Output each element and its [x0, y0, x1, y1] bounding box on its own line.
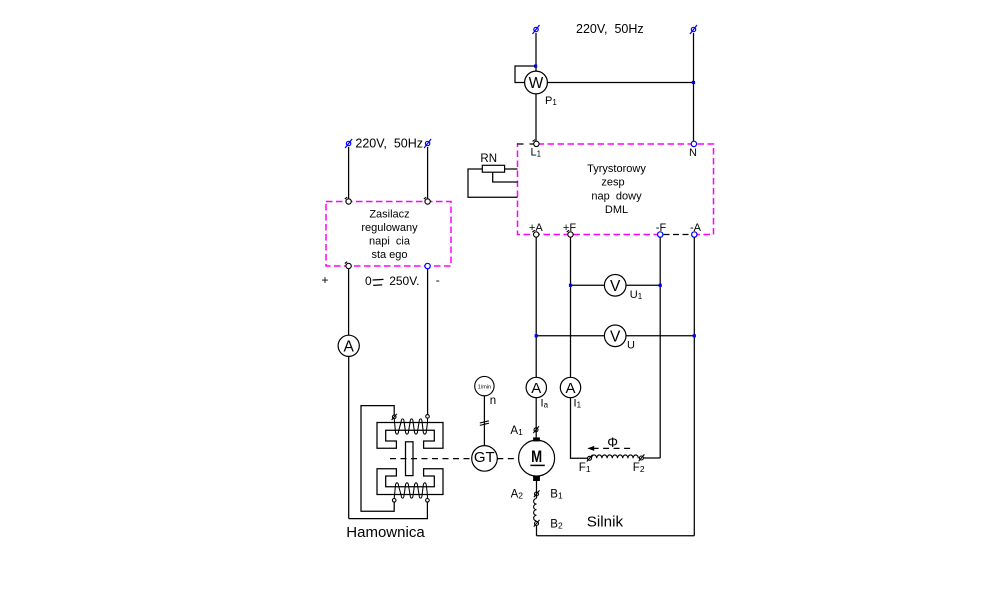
- terminal -F: [658, 232, 663, 237]
- terminal +A: [532, 230, 539, 237]
- brake coil bottom: [394, 483, 427, 499]
- svg-text:+A: +A: [529, 222, 543, 234]
- svg-text:M: M: [531, 448, 542, 466]
- node U1 left: [569, 284, 572, 287]
- svg-text:A: A: [565, 380, 575, 397]
- terminal N: [691, 141, 696, 146]
- svg-text:F1: F1: [579, 462, 591, 474]
- wire I1 down to F1: [571, 398, 588, 459]
- wire motor to B1: [536, 481, 538, 498]
- brake coil top: [394, 418, 427, 434]
- resistor RN: [482, 165, 504, 172]
- svg-text:F2: F2: [633, 462, 645, 474]
- svg-text:GT: GT: [474, 449, 495, 466]
- ammeter I1: [560, 377, 580, 397]
- wire black dash at box corner near L1: [517, 143, 534, 145]
- border mask -F -A: [663, 234, 691, 236]
- terminal +F: [567, 230, 574, 237]
- ammeter Ia: [526, 377, 546, 397]
- wire RN wiper to box: [493, 172, 518, 182]
- connector A2 B1: [534, 490, 540, 497]
- terminal zasilacz bottom-left: [345, 262, 352, 269]
- wire W to N-wire: [547, 82, 693, 84]
- svg-text:sta ego: sta ego: [371, 249, 407, 261]
- wire zasilacz right down to brake coil: [427, 269, 429, 415]
- wire L-drop: [535, 33, 537, 71]
- motor brush terminal bottom: [533, 476, 540, 481]
- tachometer 1/min: [475, 376, 494, 395]
- wire RN right to box: [505, 168, 518, 170]
- wire left-b drop: [427, 147, 429, 199]
- connector F2: [639, 454, 645, 461]
- terminal brake coil top-left: [392, 414, 397, 420]
- wire F2 to -F wire: [643, 457, 660, 459]
- terminal zasilacz bottom-right: [425, 263, 430, 268]
- coupling marks: [480, 421, 489, 426]
- terminal zasilacz top-left: [345, 197, 352, 204]
- brake core bottom: [377, 469, 443, 495]
- border mask near L1: [518, 143, 534, 145]
- svg-text:+F: +F: [563, 222, 576, 234]
- svg-text:220V, 50Hz: 220V, 50Hz: [355, 137, 423, 151]
- svg-text:Φ: Φ: [607, 435, 618, 450]
- label box text Zasilacz: [361, 209, 418, 261]
- brake rotor bar: [406, 442, 414, 476]
- wire -F drop from box: [659, 237, 661, 458]
- wire black dashes between -F and -A: [664, 234, 692, 236]
- svg-text:n: n: [490, 395, 496, 407]
- svg-text:zesp: zesp: [601, 177, 624, 189]
- ammeter brake: [338, 335, 359, 356]
- label box text DML: [587, 163, 646, 216]
- terminal brake coil top-right: [426, 415, 430, 419]
- wire left-a drop: [348, 147, 350, 199]
- terminal zasilacz top-right: [424, 197, 431, 204]
- svg-text:A: A: [344, 338, 355, 355]
- svg-text:Hamownica: Hamownica: [346, 524, 425, 541]
- terminal brake coil bottom-right: [426, 499, 430, 503]
- node junction on N wire: [692, 81, 695, 84]
- wire N-drop: [693, 33, 695, 141]
- svg-text:B2: B2: [550, 518, 563, 530]
- terminal brake coil bottom-left: [392, 499, 396, 503]
- thyristor unit box DML: [518, 144, 714, 235]
- connector F1: [587, 455, 593, 462]
- terminal mains N top: [690, 25, 697, 34]
- symbol dc: [373, 279, 384, 285]
- terminal mains left-b: [424, 139, 431, 148]
- wire Ia to motor: [535, 398, 537, 438]
- svg-text:B1: B1: [550, 488, 563, 500]
- wire ammeter down left side: [348, 356, 350, 518]
- svg-text:Zasilacz: Zasilacz: [369, 209, 409, 221]
- svg-text:DML: DML: [605, 204, 628, 216]
- svg-text:-F: -F: [656, 222, 667, 234]
- series winding B1-B2: [534, 499, 537, 521]
- terminal L1: [533, 140, 540, 147]
- wire zasilacz left down to ammeter: [348, 269, 350, 336]
- wire brake bottom feed: [349, 503, 428, 519]
- terminal mains left-a: [345, 139, 352, 148]
- svg-text:-A: -A: [690, 222, 702, 234]
- svg-text:A1: A1: [510, 425, 523, 437]
- node U1 right: [659, 284, 662, 287]
- terminal -A: [692, 232, 697, 237]
- svg-text:N: N: [689, 147, 697, 159]
- svg-text:U: U: [627, 340, 635, 352]
- flux dashed arrow: [587, 446, 632, 451]
- motor brush terminal top: [533, 437, 540, 441]
- power supply box Zasilacz: [326, 202, 451, 267]
- wire W to L1: [535, 94, 537, 141]
- shaft dashed GT to M: [497, 458, 518, 460]
- svg-text:250V.: 250V.: [389, 274, 419, 288]
- tachogenerator GT: [472, 446, 498, 472]
- wattmeter P1: [525, 71, 548, 94]
- svg-text:Silnik: Silnik: [587, 514, 624, 531]
- svg-text:nap dowy: nap dowy: [591, 190, 642, 202]
- motor M: [519, 440, 555, 476]
- terminal mains L top: [533, 25, 540, 34]
- svg-text:+: +: [322, 273, 329, 287]
- node U left: [535, 334, 538, 337]
- svg-text:W: W: [529, 75, 544, 92]
- wire brake series loop: [361, 406, 394, 512]
- svg-text:-: -: [436, 273, 440, 287]
- node junction W voltage tap: [534, 65, 537, 68]
- svg-text:0: 0: [365, 274, 372, 288]
- wire W voltage loop: [515, 66, 536, 83]
- connector A1: [533, 426, 539, 433]
- svg-text:RN: RN: [480, 153, 497, 165]
- brake shaft dashed: [390, 458, 472, 460]
- wire +A drop from box: [535, 237, 537, 377]
- brake core top: [377, 423, 443, 449]
- svg-text:1/min: 1/min: [478, 384, 491, 390]
- field winding F1-F2: [592, 455, 639, 458]
- wire tacho to GT: [483, 396, 485, 446]
- svg-text:220V, 50Hz: 220V, 50Hz: [576, 22, 644, 36]
- wire +F drop from box: [570, 237, 572, 377]
- svg-text:regulowany: regulowany: [361, 222, 418, 234]
- connector B2: [534, 520, 540, 527]
- svg-text:napi cia: napi cia: [369, 235, 411, 247]
- node U right: [693, 334, 696, 337]
- svg-text:A2: A2: [511, 488, 524, 500]
- wire RN left to box: [468, 169, 518, 197]
- voltmeter U1: [571, 275, 661, 297]
- svg-text:V: V: [610, 328, 621, 345]
- wire B2 to bottom: [536, 526, 538, 536]
- svg-text:Tyrystorowy: Tyrystorowy: [587, 163, 646, 175]
- wire bottom return to -A: [537, 535, 695, 537]
- svg-text:A: A: [531, 380, 541, 397]
- voltmeter U: [536, 325, 694, 347]
- wire -A drop from box: [693, 237, 695, 536]
- svg-text:V: V: [610, 278, 621, 295]
